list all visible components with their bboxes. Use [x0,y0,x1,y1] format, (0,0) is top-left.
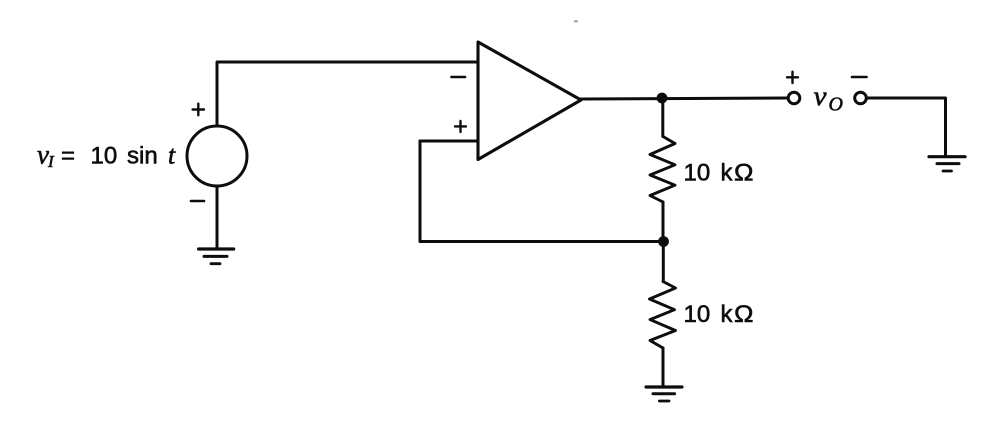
svg-text:I: I [47,152,55,171]
wire noninverting input [420,140,478,143]
ground (output) [929,157,965,171]
value label 10 kOhm of R1 [684,160,754,187]
minus polarity of output [852,76,867,79]
svg-text:t: t [168,141,176,170]
svg-text:Ω: Ω [734,301,754,328]
svg-text:sin: sin [127,143,158,170]
junction node feedback [658,236,669,247]
op-amp U1 [478,42,581,160]
minus label of inverting input [452,76,466,79]
wire feedback left vertical and bottom horizontal [420,141,663,242]
svg-text:k: k [721,160,734,187]
source label vI = 10 sin t [37,140,176,172]
svg-text:10: 10 [684,160,711,187]
plus polarity of source [193,104,204,116]
value label 10 kOhm of R2 [684,301,754,328]
svg-text:10: 10 [91,143,118,170]
svg-text:=: = [61,143,75,170]
voltage source V1 [187,126,247,186]
svg-text:10: 10 [684,301,711,328]
wire minus terminal to ground [867,98,946,156]
svg-text:v: v [814,81,827,111]
junction node output [657,93,668,104]
scan speck [574,20,578,23]
wire source bottom to ground [216,186,219,249]
wire R2 to ground [662,348,665,387]
wire op-amp output to plus terminal [581,98,787,99]
terminal plus (open circle) [788,92,800,104]
svg-text:O: O [829,94,843,116]
svg-text:Ω: Ω [734,160,754,187]
plus polarity of output [787,72,798,83]
wire junction to resistor R1 [661,98,664,137]
terminal minus (open circle) [855,92,867,104]
svg-text:k: k [721,301,734,328]
resistor R1 [650,137,675,203]
wire junction to resistor R2 [662,242,665,282]
minus polarity of source [191,200,204,203]
plus label of noninverting input [455,121,466,132]
resistor R2 [650,282,676,349]
ground (below R2) [646,387,682,401]
wire source top to op-amp inverting input [217,62,478,126]
wire R1 to bottom junction [662,202,665,242]
output label vO [814,81,843,116]
ground (source) [199,249,234,264]
